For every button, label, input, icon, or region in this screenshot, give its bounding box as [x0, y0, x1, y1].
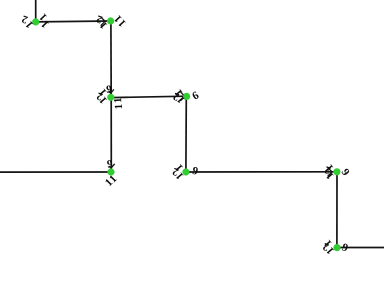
wire E to left edge	[0, 171, 111, 173]
label 12 at G left	[325, 164, 333, 172]
label 9 at F right	[192, 167, 198, 175]
label 12 at H left	[324, 240, 332, 248]
label 12 at A left	[21, 15, 28, 23]
wire D-F	[185, 96, 187, 172]
label 9 at C top	[106, 85, 112, 93]
arrowhead into C	[109, 89, 114, 93]
arrowhead into B	[101, 17, 105, 26]
wire B-C	[110, 21, 112, 97]
node F	[182, 168, 189, 175]
label 9 at D right	[191, 91, 199, 100]
label 11 at A right	[39, 13, 47, 21]
label 9 at E top	[107, 160, 113, 168]
node H	[333, 244, 340, 251]
label 12 at D left	[174, 89, 182, 97]
label 11 at E bottom	[109, 175, 117, 183]
arrowhead into E	[109, 164, 115, 168]
wire H to right edge	[337, 247, 384, 249]
node C	[107, 94, 114, 101]
label 12 at B left	[96, 15, 103, 23]
node A	[32, 18, 39, 25]
wire G-H	[336, 172, 338, 248]
label 11 at C right	[114, 98, 121, 102]
label 11 at B right	[114, 15, 122, 23]
wire A-B	[36, 20, 111, 23]
wire F-G	[186, 171, 337, 173]
wire C-D	[111, 96, 187, 97]
label 12 at F left	[175, 164, 183, 172]
node D	[183, 93, 190, 100]
node G	[333, 168, 340, 175]
label 9 at H right	[342, 243, 349, 251]
label 9 at G right	[341, 168, 350, 176]
arrowhead into G	[328, 167, 332, 176]
wire C-E	[110, 97, 112, 172]
label 12 at C left	[98, 88, 106, 96]
node E	[107, 168, 114, 175]
node B	[107, 17, 114, 24]
arrowhead into D	[181, 92, 185, 101]
wire top to node A	[35, 0, 37, 22]
